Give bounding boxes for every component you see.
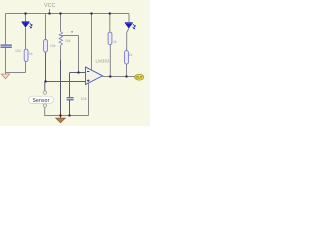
svg-text:OUT: OUT xyxy=(136,76,143,80)
svg-text:VCC: VCC xyxy=(44,3,55,9)
svg-text:LM393: LM393 xyxy=(96,58,111,63)
svg-text:1k: 1k xyxy=(129,53,133,57)
svg-text:Sensor: Sensor xyxy=(32,98,49,104)
svg-text:10k: 10k xyxy=(65,39,71,43)
svg-text:1k: 1k xyxy=(29,52,33,56)
svg-text:103: 103 xyxy=(15,49,21,53)
svg-text:10k: 10k xyxy=(50,44,56,48)
svg-text:104: 104 xyxy=(81,97,87,101)
svg-text:1k: 1k xyxy=(113,40,117,44)
